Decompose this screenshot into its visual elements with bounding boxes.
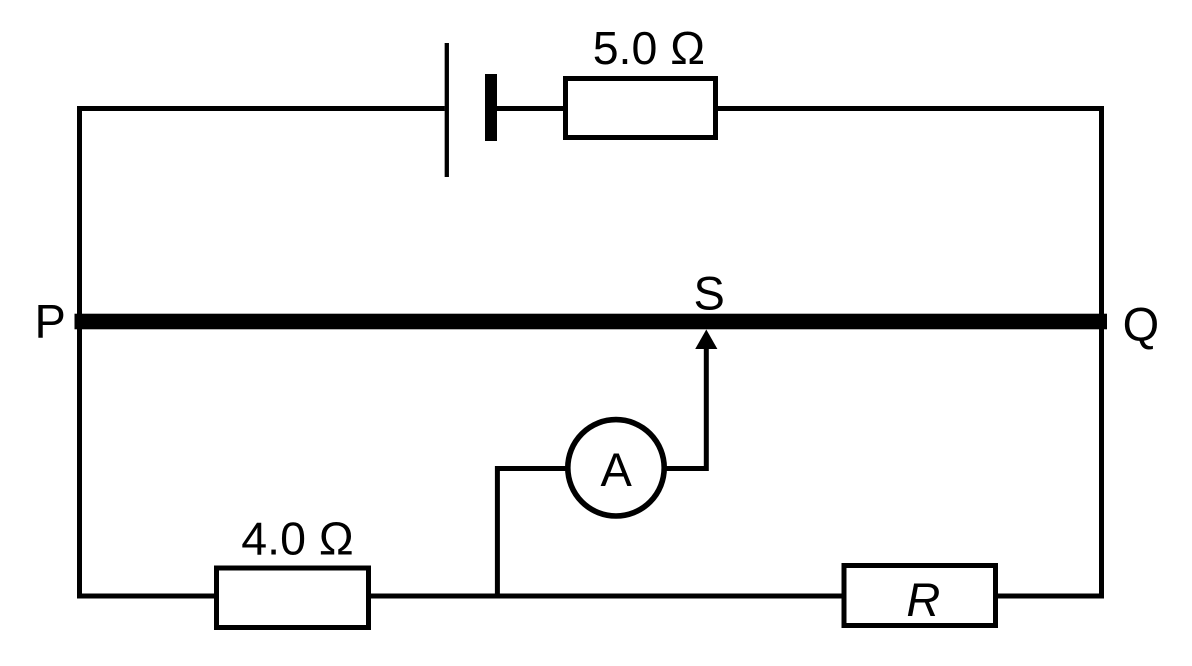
- wire: top-left from battery to corner, left side, bottom-left to 4.0 ohm resistor: [80, 109, 445, 597]
- battery cell: short thick negative plate: [485, 74, 497, 141]
- svg-text:A: A: [601, 443, 633, 496]
- slider arrow shaft and wire down to ammeter: [664, 348, 706, 469]
- slider arrow head touching wire at S: [695, 330, 717, 350]
- resistor 5.0 ohm box: [566, 79, 716, 138]
- svg-text:S: S: [694, 267, 725, 320]
- wire: 4.0 ohm resistor to resistor R along bottom: [371, 594, 844, 599]
- wire: battery to 5.0 ohm resistor: [497, 106, 565, 111]
- battery cell: long positive plate: [445, 43, 449, 177]
- potentiometer wire PQ (thick bar): [75, 314, 1108, 330]
- resistor 4.0 ohm box: [217, 568, 369, 628]
- ammeter A (circle): [568, 420, 664, 516]
- svg-text:R: R: [906, 573, 940, 626]
- resistor R box: [844, 566, 996, 626]
- wire: ammeter left terminal, down to bottom wire junction: [497, 469, 568, 597]
- svg-text:5.0 Ω: 5.0 Ω: [593, 22, 705, 74]
- svg-text:P: P: [35, 295, 66, 348]
- svg-text:4.0 Ω: 4.0 Ω: [241, 513, 353, 565]
- wire: 5.0 ohm resistor to top-right corner, right side down to bottom-right corner, to resistor R: [718, 109, 1102, 597]
- svg-text:Q: Q: [1123, 298, 1160, 351]
